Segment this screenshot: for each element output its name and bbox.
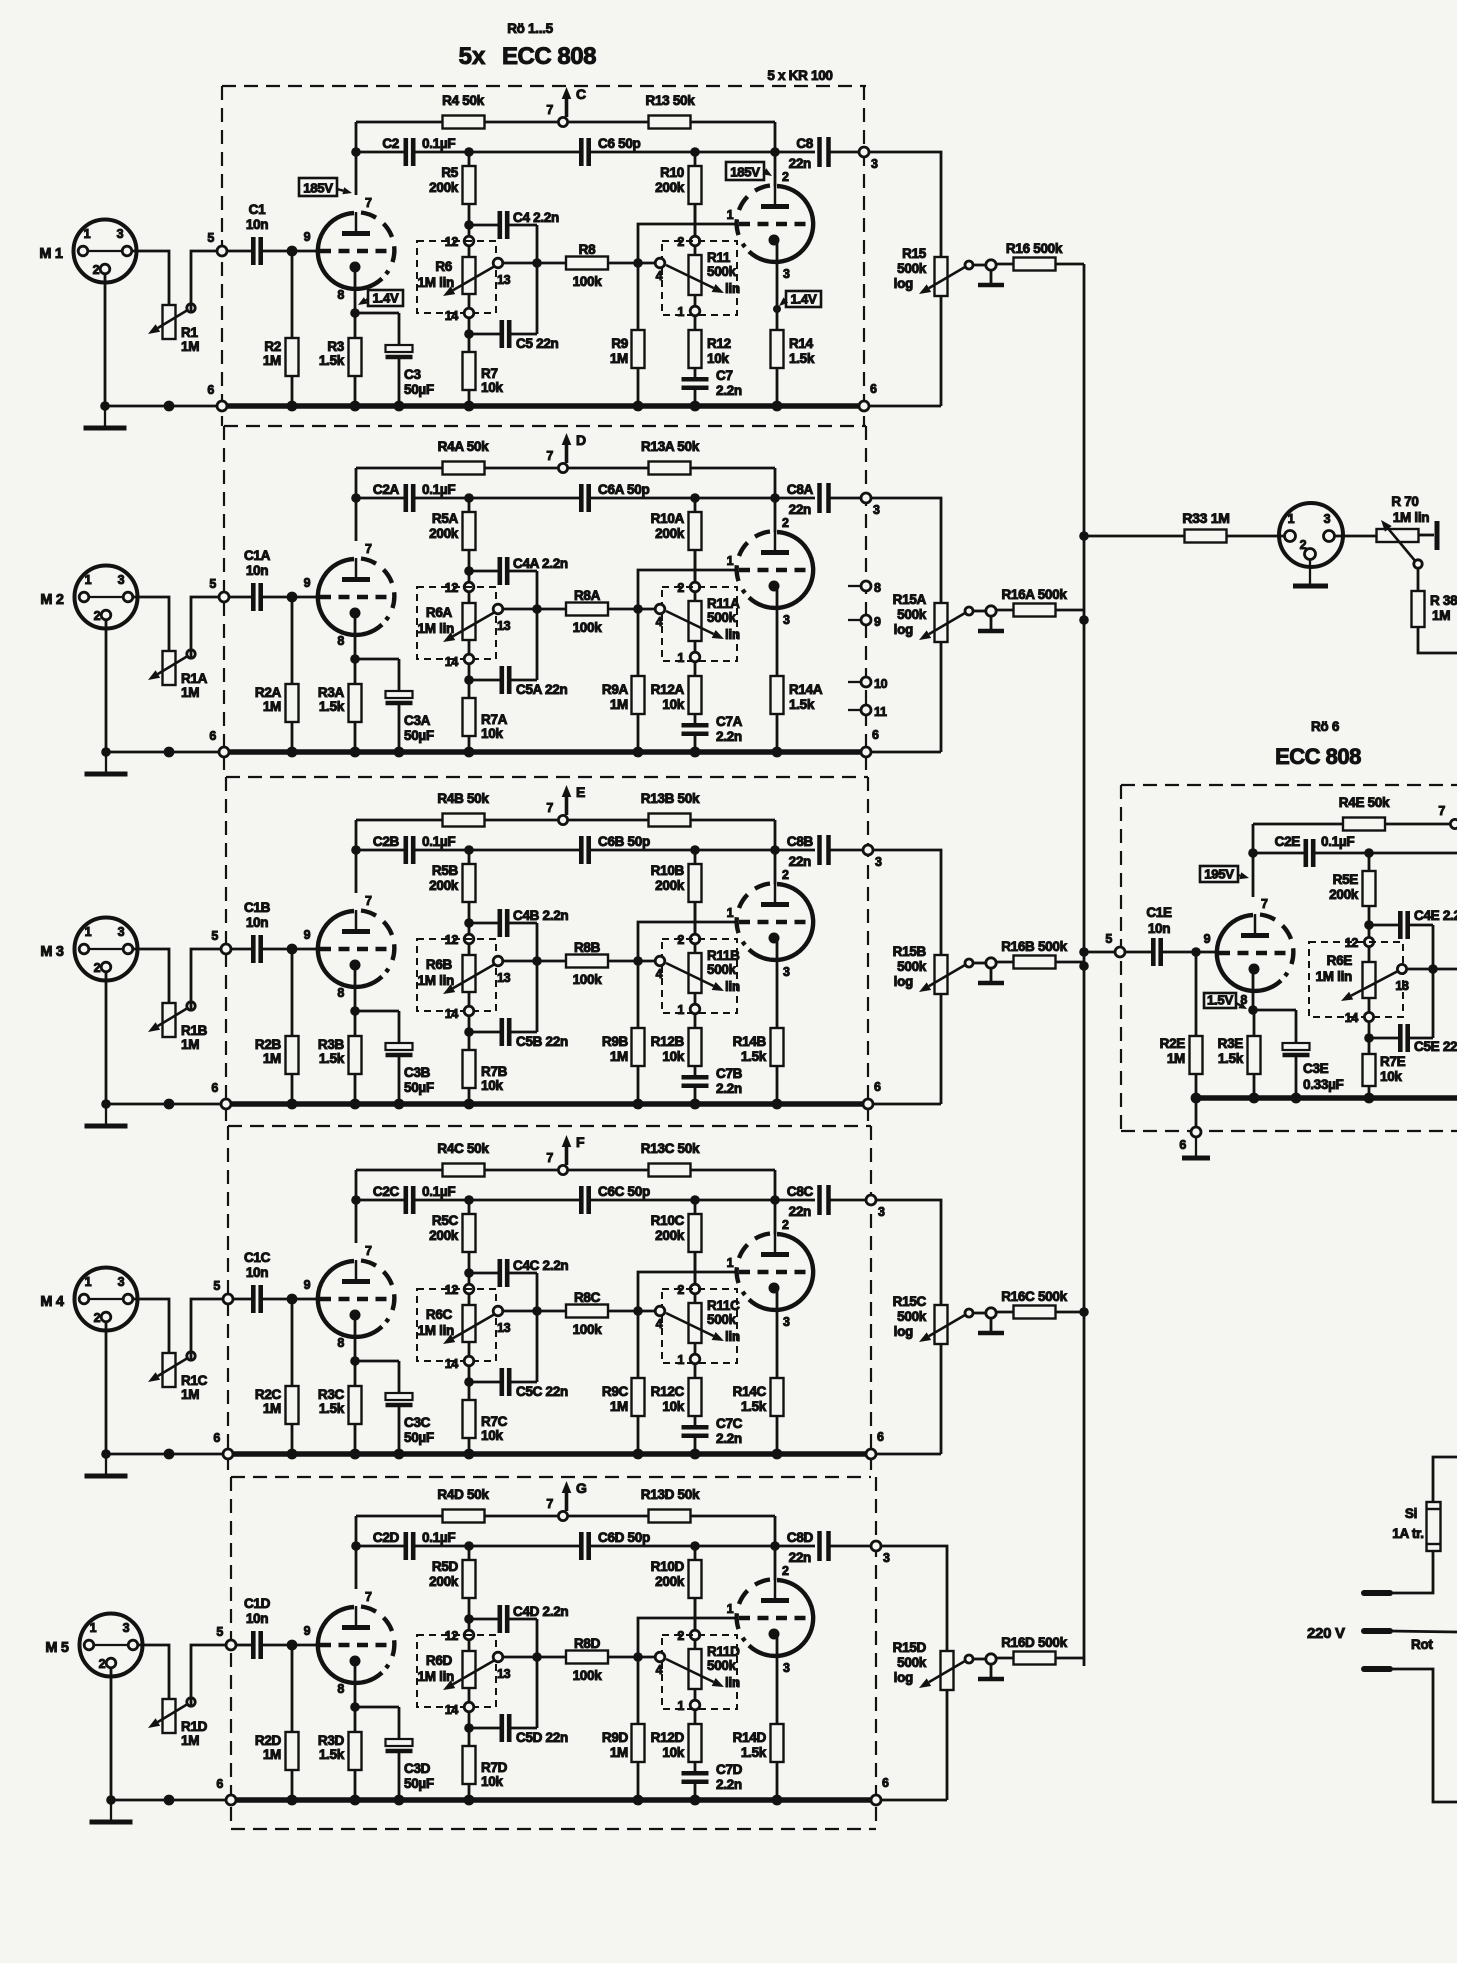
svg-text:5: 5 <box>207 231 214 245</box>
wire connector pin 3 to R70 <box>1334 535 1377 538</box>
anode rail wire (pin7 to R4 to node 7) <box>356 1169 443 1172</box>
plate load resistor R5D 200k <box>468 1546 471 1560</box>
svg-text:R4C 50k: R4C 50k <box>437 1141 489 1156</box>
mix resistor R16A 500k <box>996 609 1013 612</box>
junction <box>1191 1093 1202 1104</box>
capacitor C4D 2.2n <box>469 1618 498 1621</box>
wire mic pin2 to ground bus <box>105 1322 108 1454</box>
dashed enclosure: channel boxes <box>222 85 866 87</box>
capacitor C7 2.2n <box>682 377 709 382</box>
terminal 9 <box>848 619 861 621</box>
svg-text:R1D: R1D <box>181 1719 208 1734</box>
svg-text:C: C <box>576 86 586 102</box>
ground below M 3 <box>105 1104 107 1124</box>
svg-text:R6E: R6E <box>1327 953 1353 968</box>
wire node 13 to R8 <box>503 960 566 963</box>
svg-text:2.2n: 2.2n <box>716 1431 742 1446</box>
svg-text:6: 6 <box>1179 1138 1186 1152</box>
node 6 (ground, right) <box>859 401 869 411</box>
svg-text:10k: 10k <box>481 1428 503 1443</box>
input level pot R1B 1M <box>163 1003 176 1037</box>
wire cathode pin 8 down <box>1252 969 1255 1010</box>
node 7 (HT supply) <box>558 463 567 472</box>
svg-text:1: 1 <box>727 1602 734 1616</box>
wire wiper to jack contact <box>973 1658 986 1661</box>
svg-text:R5B: R5B <box>432 863 459 878</box>
wire pot wiper to node 5 <box>191 1299 228 1360</box>
svg-text:7: 7 <box>546 1497 553 1511</box>
svg-text:6: 6 <box>213 1431 220 1445</box>
node 2 <box>694 902 697 934</box>
capacitor C7A 2.2n <box>682 723 709 728</box>
junction <box>287 944 298 955</box>
junction <box>287 1099 298 1110</box>
coupling rail wire C2E <box>1253 852 1305 855</box>
capacitor C4E 2.2n <box>1369 924 1399 927</box>
node 3 (output) <box>871 1541 881 1551</box>
svg-text:2: 2 <box>782 868 789 882</box>
svg-text:R10C: R10C <box>651 1213 685 1228</box>
grid resistor R2E 1M <box>1195 952 1198 1036</box>
svg-text:1M: 1M <box>181 1733 199 1748</box>
node 3 (output) <box>859 147 869 157</box>
cathode resistor R3D 1.5k <box>354 1707 357 1732</box>
wire node 5 to C1E <box>1125 951 1152 954</box>
wire plate pin 7 up to rail <box>355 468 358 541</box>
node 13 <box>493 1306 503 1316</box>
svg-text:3: 3 <box>878 1205 885 1219</box>
tube Rö5 triode b (ECC808) <box>749 1580 813 1656</box>
svg-text:R15B: R15B <box>893 944 927 959</box>
gain pot R11 500k lin <box>662 241 737 315</box>
wire R15 bottom to node 6 <box>881 1799 947 1802</box>
svg-text:R12B: R12B <box>651 1034 685 1049</box>
svg-text:4: 4 <box>656 1663 663 1677</box>
svg-text:C7C: C7C <box>716 1416 743 1431</box>
plate load resistor R5 200k <box>468 152 471 166</box>
node 5 (input) <box>223 1294 233 1304</box>
svg-text:6: 6 <box>207 383 214 397</box>
junction <box>350 1356 360 1366</box>
svg-text:7: 7 <box>365 1590 372 1604</box>
svg-text:C6C 50p: C6C 50p <box>598 1184 650 1199</box>
junction <box>464 1195 474 1205</box>
svg-text:9: 9 <box>304 576 311 590</box>
svg-text:R1B: R1B <box>181 1023 208 1038</box>
wire cathode pin 3 down to R14 <box>776 938 779 1028</box>
gain pot R11B 500k lin <box>662 939 737 1013</box>
wire node 13 to R8 <box>503 1310 566 1313</box>
node 6 (ground, right) <box>871 1795 881 1805</box>
node 6 (ground, left) <box>221 1099 231 1109</box>
resistor R4B 50k <box>443 814 485 827</box>
junction <box>394 1099 405 1110</box>
svg-text:10n: 10n <box>246 1265 268 1280</box>
wire R70 wiper down to R38 <box>1417 568 1420 591</box>
svg-text:0.1µF: 0.1µF <box>422 834 455 849</box>
tube Rö1 triode b (ECC808) <box>749 186 813 262</box>
node 6 (ground, right) <box>863 1099 873 1109</box>
svg-text:R3: R3 <box>327 339 344 354</box>
resistor R7E 10k <box>1368 1038 1371 1054</box>
ground below M 2 <box>105 752 107 772</box>
svg-text:50µF: 50µF <box>404 1080 434 1095</box>
junction <box>690 747 701 758</box>
svg-text:3: 3 <box>783 1661 790 1675</box>
grid resistor R9 1M <box>637 263 640 330</box>
mains fuse Si 1A tr. <box>1433 1457 1457 1502</box>
terminal 10 <box>848 681 861 683</box>
wire wiper to jack contact <box>973 610 986 613</box>
junction <box>464 493 474 503</box>
tube Rö1 triode a (ECC808) <box>318 213 382 289</box>
svg-text:C4E 2.2n: C4E 2.2n <box>1414 908 1457 923</box>
anode rail wire (pin7 to R4 to node 7) <box>356 819 443 822</box>
capacitor C1E 10n <box>1151 938 1156 966</box>
tube Rö4 triode b (ECC808) <box>749 1234 813 1310</box>
node 2 <box>694 1598 697 1630</box>
mains prong 3 <box>1364 1666 1390 1672</box>
junction <box>532 1652 542 1662</box>
wire plate pin 7 up to rail <box>355 122 358 195</box>
plate load resistor R10A 200k <box>694 498 697 512</box>
svg-text:10k: 10k <box>481 726 503 741</box>
node 5 (input) <box>221 944 231 954</box>
wire to tube2 grid pin 1 <box>638 1618 738 1657</box>
node 3 (output) <box>866 1195 876 1205</box>
electrolytic C3C 50µF <box>386 1393 413 1400</box>
svg-text:ECC 808: ECC 808 <box>502 43 596 70</box>
svg-text:13: 13 <box>497 1667 511 1681</box>
junction <box>164 1449 175 1460</box>
junction <box>464 747 475 758</box>
svg-text:C5D 22n: C5D 22n <box>516 1730 568 1745</box>
wire node 5 to C1 <box>227 250 252 253</box>
svg-text:8: 8 <box>337 1682 344 1696</box>
svg-text:6: 6 <box>877 1430 884 1444</box>
svg-text:R9A: R9A <box>602 682 629 697</box>
capacitor C2B 0.1µF <box>403 836 408 864</box>
resistor R13A 50k <box>649 462 691 475</box>
svg-text:3: 3 <box>1324 512 1331 526</box>
svg-text:log: log <box>894 974 913 989</box>
svg-text:200k: 200k <box>655 180 685 195</box>
svg-text:R5: R5 <box>441 165 458 180</box>
svg-text:13: 13 <box>497 1321 511 1335</box>
wire mic pin2 to ground bus <box>110 1668 113 1800</box>
svg-text:1: 1 <box>727 906 734 920</box>
svg-text:200k: 200k <box>655 526 685 541</box>
svg-text:R12A: R12A <box>651 682 685 697</box>
svg-text:7: 7 <box>365 542 372 556</box>
svg-text:0.1µF: 0.1µF <box>422 1184 455 1199</box>
svg-text:6: 6 <box>872 728 879 742</box>
svg-text:R13 50k: R13 50k <box>646 93 696 108</box>
capacitor C4C 2.2n <box>469 1272 498 1275</box>
svg-text:C3B: C3B <box>404 1065 431 1080</box>
svg-text:R9D: R9D <box>602 1730 629 1745</box>
svg-text:R7: R7 <box>481 366 498 381</box>
svg-text:500k: 500k <box>707 264 737 279</box>
svg-text:C7D: C7D <box>716 1762 743 1777</box>
svg-text:1.5k: 1.5k <box>741 1745 767 1760</box>
junction <box>464 1614 474 1624</box>
thin ground wire to node 6 <box>105 405 222 408</box>
junction <box>770 147 780 157</box>
svg-text:R8B: R8B <box>574 940 601 955</box>
svg-text:50µF: 50µF <box>404 1776 434 1791</box>
node 2 <box>694 1252 697 1284</box>
plate load resistor R5E 200k <box>1368 853 1371 871</box>
wire mic pin3 to R-pot top <box>132 251 169 305</box>
svg-text:7: 7 <box>1261 897 1268 911</box>
wire cathode pin 3 down to R14 <box>776 1634 779 1724</box>
svg-text:C6B 50p: C6B 50p <box>598 834 650 849</box>
cathode resistor R3A 1.5k <box>354 659 357 684</box>
node 14 <box>468 1342 471 1356</box>
svg-text:1M: 1M <box>181 1387 199 1402</box>
wire plate pin 7 up to rail <box>355 820 358 893</box>
grid resistor R2C 1M <box>291 1299 294 1386</box>
wire rail down to tube 2 plate pin 2 <box>774 1516 777 1580</box>
svg-text:R3C: R3C <box>318 1387 345 1402</box>
svg-text:10k: 10k <box>662 1049 684 1064</box>
svg-text:lin: lin <box>725 627 740 642</box>
wire R16 to mix bus <box>1056 1657 1084 1660</box>
junction <box>1364 1033 1374 1043</box>
svg-text:5: 5 <box>1105 932 1112 946</box>
ground bus (thick) <box>236 1797 871 1803</box>
node 6 (ground, left) <box>223 1449 233 1459</box>
ground bus (thick) <box>233 1451 866 1457</box>
svg-text:195V: 195V <box>1204 867 1234 882</box>
ground bus (thick) <box>231 1101 863 1107</box>
junction <box>464 1541 474 1551</box>
svg-text:R6D: R6D <box>426 1653 453 1668</box>
capacitor C2A 0.1µF <box>403 484 408 512</box>
node 12 <box>464 236 474 246</box>
svg-text:2.2n: 2.2n <box>716 729 742 744</box>
junction <box>350 654 360 664</box>
svg-text:log: log <box>894 276 913 291</box>
junction <box>633 1099 644 1110</box>
node 7 (HT supply) <box>558 1165 567 1174</box>
wire node 7 to R13 <box>567 121 649 124</box>
capacitor C5B 22n <box>469 1031 500 1034</box>
svg-text:R14C: R14C <box>733 1384 767 1399</box>
svg-text:1: 1 <box>677 305 684 319</box>
capacitor C4 2.2n <box>469 224 498 227</box>
node 14 <box>1368 998 1371 1012</box>
wire cathode pin 3 down to R14 <box>776 586 779 676</box>
junction <box>464 220 474 230</box>
wire R16 to mix bus <box>1056 263 1084 266</box>
svg-text:1: 1 <box>85 925 92 939</box>
svg-text:C5B 22n: C5B 22n <box>516 1034 568 1049</box>
coupling rail wire with C2/C6 <box>356 849 405 852</box>
svg-text:C4C 2.2n: C4C 2.2n <box>513 1258 568 1273</box>
output level pot R15C 500k log <box>935 1305 948 1344</box>
svg-text:22n: 22n <box>789 1204 811 1219</box>
wire R15 bottom to node 6 <box>876 1453 941 1456</box>
plate load resistor R5A 200k <box>468 498 471 512</box>
capacitor C6B 50p <box>579 836 584 864</box>
capacitor C1A 10n <box>251 583 256 611</box>
svg-text:R4D 50k: R4D 50k <box>437 1487 489 1502</box>
svg-text:D: D <box>576 432 586 448</box>
junction <box>770 1541 780 1551</box>
svg-text:R10D: R10D <box>651 1559 685 1574</box>
svg-text:50µF: 50µF <box>404 1430 434 1445</box>
svg-text:185V: 185V <box>303 181 333 196</box>
wire fuse to mains prong 1 <box>1392 1551 1433 1593</box>
svg-text:200k: 200k <box>655 1574 685 1589</box>
junction <box>690 1449 701 1460</box>
svg-text:1.5k: 1.5k <box>741 1049 767 1064</box>
grounded jack contact <box>986 606 996 616</box>
svg-text:1M: 1M <box>610 1399 628 1414</box>
electrolytic C3A 50µF <box>386 691 413 698</box>
svg-text:R6A: R6A <box>426 605 453 620</box>
wire plate pin 7 up to rail <box>1252 824 1255 897</box>
grid resistor R9D 1M <box>637 1657 640 1724</box>
dashed box Rö6 <box>1121 784 1457 786</box>
gain pot R6E 1M lin <box>1309 942 1403 1017</box>
svg-text:R16 500k: R16 500k <box>1006 241 1063 256</box>
junction <box>287 401 298 412</box>
voltage label 195V <box>1200 866 1238 882</box>
capacitor C2D 0.1µF <box>403 1532 408 1560</box>
gain pot R11C 500k lin <box>662 1289 737 1363</box>
svg-text:1.5k: 1.5k <box>1218 1051 1244 1066</box>
svg-text:R1A: R1A <box>181 671 208 686</box>
svg-text:7: 7 <box>365 196 372 210</box>
junction <box>1191 947 1201 957</box>
junction <box>101 1449 111 1459</box>
junction <box>1079 615 1089 625</box>
mains prong 2 <box>1364 1628 1390 1634</box>
junction <box>532 956 542 966</box>
svg-text:1.4V: 1.4V <box>373 291 399 306</box>
resistor R4D 50k <box>443 1510 485 1523</box>
junction <box>287 246 298 257</box>
svg-text:R15C: R15C <box>893 1294 927 1309</box>
junction <box>164 747 175 758</box>
svg-text:C2: C2 <box>382 136 399 151</box>
capacitor C4A 2.2n <box>469 570 498 573</box>
wire C1 to grid <box>262 1298 320 1301</box>
svg-text:0.33µF: 0.33µF <box>1303 1077 1344 1092</box>
svg-text:500k: 500k <box>707 1312 737 1327</box>
voltage label 1.4V (tube2 cathode) <box>786 291 821 307</box>
svg-text:10k: 10k <box>481 1078 503 1093</box>
junction <box>164 401 175 412</box>
output capacitor C8B 22n <box>775 849 815 852</box>
voltage label 185V (tube2) <box>726 162 764 180</box>
junction <box>1364 848 1374 858</box>
output capacitor C8D 22n <box>775 1545 815 1548</box>
svg-text:1M: 1M <box>181 339 199 354</box>
resistor R7D 10k <box>468 1728 471 1746</box>
resistor R13 50k <box>649 116 691 129</box>
junction <box>351 845 361 855</box>
node 13 <box>493 258 503 268</box>
wire node 13 to R8 <box>503 1656 566 1659</box>
plate load resistor R10 200k <box>694 152 697 166</box>
thin ground wire to node 6 <box>106 751 224 754</box>
svg-text:C3C: C3C <box>404 1415 431 1430</box>
svg-text:1.5k: 1.5k <box>789 697 815 712</box>
wire R8 to node 4 <box>608 960 658 963</box>
capacitor C6 50p <box>579 138 584 166</box>
svg-text:1M lin: 1M lin <box>418 1669 455 1684</box>
output capacitor C8 22n <box>775 151 815 154</box>
junction <box>351 493 361 503</box>
junction <box>1364 1093 1375 1104</box>
svg-text:log: log <box>894 1324 913 1339</box>
junction <box>770 1195 780 1205</box>
junction <box>690 1795 701 1806</box>
wire node 3 to R15 <box>876 1200 941 1305</box>
junction <box>106 1795 116 1805</box>
svg-text:R9B: R9B <box>602 1034 629 1049</box>
svg-text:3: 3 <box>118 1275 125 1289</box>
junction <box>633 1652 643 1662</box>
ground below M 5 <box>110 1800 112 1820</box>
resistor R13B 50k <box>649 814 691 827</box>
coupling rail wire with C2/C6 <box>356 1545 405 1548</box>
junction <box>1248 1005 1258 1015</box>
anode rail wire to R4E <box>1253 823 1343 826</box>
svg-text:C8: C8 <box>796 136 813 151</box>
junction <box>464 845 474 855</box>
node 5 (input) <box>217 246 227 256</box>
svg-text:R11B: R11B <box>707 948 740 963</box>
wire cathode pin 8 down <box>354 1661 357 1707</box>
svg-text:22n: 22n <box>789 1550 811 1565</box>
plate load resistor R10C 200k <box>694 1200 697 1214</box>
capacitor C1D 10n <box>251 1631 256 1659</box>
wire wiper to jack contact <box>973 962 986 965</box>
svg-text:200k: 200k <box>429 180 459 195</box>
junction <box>464 147 474 157</box>
svg-text:R14B: R14B <box>733 1034 767 1049</box>
svg-text:M 4: M 4 <box>40 1294 64 1310</box>
interstage resistor R8B 100k <box>566 955 608 968</box>
svg-text:500k: 500k <box>707 610 737 625</box>
svg-text:5: 5 <box>211 929 218 943</box>
svg-text:1.5k: 1.5k <box>319 1051 345 1066</box>
node 6 (ground, left) <box>226 1795 236 1805</box>
resistor R12B 10k <box>694 1014 697 1028</box>
wire rail down to tube 2 plate pin 2 <box>774 122 777 186</box>
svg-text:4: 4 <box>656 967 663 981</box>
wire cathode node to C3 <box>355 1010 399 1013</box>
wire to tube2 grid pin 1 <box>638 570 738 609</box>
svg-text:M 5: M 5 <box>45 1640 69 1656</box>
svg-text:M 1: M 1 <box>39 246 63 262</box>
svg-text:log: log <box>894 1670 913 1685</box>
svg-text:C5C 22n: C5C 22n <box>516 1384 568 1399</box>
output capacitor C8C 22n <box>775 1199 815 1202</box>
svg-text:C2E: C2E <box>1275 834 1301 849</box>
tube Rö4 triode a (ECC808) <box>318 1261 382 1337</box>
svg-text:R13A 50k: R13A 50k <box>641 439 700 454</box>
svg-text:C4 2.2n: C4 2.2n <box>513 210 559 225</box>
wire mic pin3 to R-pot top <box>133 949 169 1003</box>
capacitor C5D 22n <box>469 1727 500 1730</box>
junction <box>101 1099 111 1109</box>
